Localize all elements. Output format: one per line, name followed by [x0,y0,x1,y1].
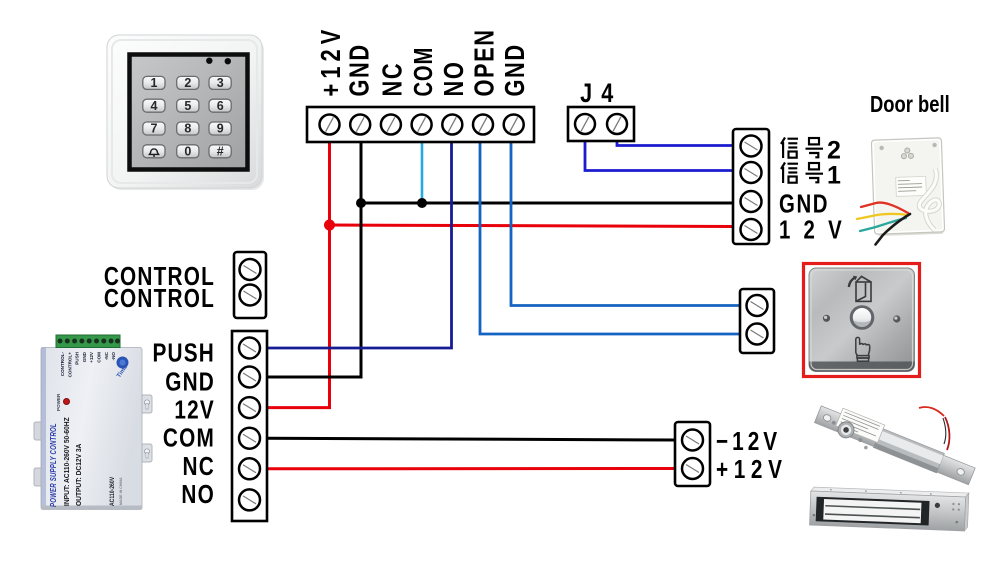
magnetic lock armature recess [816,497,930,526]
power supply green input terminal [56,335,120,348]
svg-text:CONTROL: CONTROL [104,284,215,313]
svg-text:CONTROL-: CONTROL- [60,352,65,377]
junction node red 12V bus [324,220,335,231]
keypad keys [143,76,231,158]
label COM (power supply) [163,423,215,452]
wire J4 pin1 blue to bell signal1 [585,141,733,171]
svg-text:-NC: -NC [104,351,109,360]
pin label +12V (controller) [315,25,346,97]
svg-text:+12V: +12V [315,25,346,97]
exit button hand icon [856,337,870,361]
magnetic lock screws and hole [935,503,940,508]
wire OPEN blue down and right to exit button terminal 2 [480,135,740,334]
pin label GND 2 (controller) [499,43,530,96]
door bell screws [879,146,884,151]
label -12V (lock block) [716,427,781,456]
svg-text:PUSH: PUSH [152,338,215,367]
svg-text:GND: GND [82,351,87,362]
wire black from junction down to power supply GND [258,203,361,377]
power supply mounting ears [142,395,152,413]
label CONTROL 1 [104,262,215,291]
svg-text:1: 1 [151,76,158,90]
door bell label sticker [896,176,927,196]
bolt lock label [836,408,885,442]
svg-text:NC: NC [183,452,215,481]
svg-text:COM: COM [97,352,102,363]
svg-text:5: 5 [184,99,191,113]
exit button red frame [804,264,920,377]
power supply pin labels [60,351,116,377]
J4 connector block [568,107,634,141]
door bell device [871,138,944,236]
svg-text:-NO: -NO [111,352,116,361]
door bell terminal block [733,129,769,244]
door bell colored wires [857,203,910,245]
svg-text:J 4: J 4 [580,79,615,109]
svg-text:NO: NO [181,480,215,509]
bolt lock wires [919,407,949,450]
wire COM light blue drop to GND bus [421,135,424,202]
label NO (power supply) [181,480,215,509]
door bell white cable [918,169,940,231]
svg-text:2: 2 [184,76,191,90]
pin label COM (controller) [409,47,438,97]
wire NO navy down and left to power supply PUSH [258,135,452,348]
power supply output terminal block (PUSH..NO) [232,331,267,521]
power supply power LED [64,399,70,405]
magnetic lock [810,487,969,531]
svg-text:GND: GND [165,367,215,396]
electric bolt lock [812,400,977,490]
power supply time knob [117,357,129,369]
keypad access controller [107,35,264,190]
wire black COM row to -12V terminal [267,438,675,440]
lock power terminal block (-12V / +12V) [675,422,710,486]
svg-text:7: 7 [151,122,158,136]
controller terminal strip [307,107,534,142]
svg-text:+12V: +12V [89,351,94,363]
junction node black GND bus at COM drop [417,198,427,208]
CONTROL terminal block [234,252,266,318]
door bell keyhole mount [901,148,913,159]
label Door bell [870,92,950,117]
label CONTROL 2 [104,284,215,313]
svg-text:PUSH: PUSH [75,351,80,364]
wire GND black vertical from controller to junction [360,135,363,203]
svg-text:NC: NC [377,62,408,97]
exit button terminal block [740,289,774,353]
label GND (power supply) [165,367,215,396]
svg-text:3: 3 [217,76,224,90]
svg-text:6: 6 [217,99,224,113]
label J 4 [580,79,615,109]
wire red from junction down to power supply 12V [258,225,330,408]
label PUSH [152,338,215,367]
label +12V (lock block) [716,455,788,484]
label 12V (power supply) [174,395,215,424]
svg-text:+12V: +12V [716,455,788,484]
svg-text:9: 9 [217,122,224,136]
svg-text:1: 1 [827,162,841,190]
bolt lock body cylinder [873,428,944,473]
svg-text:12V: 12V [174,395,215,424]
wire J4 pin2 blue to bell signal2 [617,141,733,146]
pin label GND (controller) [344,43,375,96]
keypad bell key icon [149,149,158,156]
power supply side texts [48,423,58,507]
wire +12V red vertical from controller to junction [328,135,331,225]
svg-text:8: 8 [184,122,191,136]
svg-text:POWER: POWER [56,393,61,411]
bolt lock cylinder face [836,419,857,440]
svg-text:MADE IN CHINA: MADE IN CHINA [119,477,123,505]
svg-text:COM: COM [163,423,215,452]
wire black bus from junction to bell GND terminal [361,202,733,205]
svg-text:AC110-260V: AC110-260V [110,477,116,506]
exit button [804,264,920,377]
svg-text:4: 4 [151,99,158,113]
exit button screws [823,315,830,322]
svg-text:Door bell: Door bell [870,92,950,117]
svg-text:12V: 12V [779,215,855,244]
svg-text:GND: GND [499,43,530,96]
svg-text:COM: COM [409,47,438,97]
label GND (bell block) [779,189,829,218]
svg-text:#: # [217,144,224,158]
exit button push button [850,305,875,330]
pin label NC (controller) [377,62,408,97]
exit button steel plate [809,268,915,372]
wire GND blue down and right to exit button terminal 1 [511,135,740,306]
junction node black GND bus at GND drop [356,198,366,208]
svg-text:NO: NO [438,61,469,97]
label NC (power supply) [183,452,215,481]
svg-text:OUTPUT: DC12V 3A: OUTPUT: DC12V 3A [76,444,83,506]
svg-text:INPUT: AC110-260V 50-60HZ: INPUT: AC110-260V 50-60HZ [64,417,71,506]
label signal1 (bell block) [781,162,841,190]
svg-text:POWER SUPPLY CONTROL: POWER SUPPLY CONTROL [48,423,58,507]
pin label OPEN (controller) [469,28,500,96]
svg-text:CONTROL+: CONTROL+ [67,352,72,378]
svg-text:2: 2 [827,137,841,165]
svg-text:GND: GND [344,43,375,96]
wire red NC row to +12V terminal [267,467,675,470]
svg-text:OPEN: OPEN [469,28,500,96]
label 12V (bell block) [779,215,855,244]
exit button door icon [849,276,871,301]
svg-text:GND: GND [779,189,829,218]
label signal2 (bell block) [781,137,841,165]
pin label NO (controller) [438,61,469,97]
keypad status LEDs [206,58,212,64]
power supply unit [34,335,152,510]
svg-text:−12V: −12V [716,427,781,456]
wire red bus from junction to bell 12V terminal [330,225,734,227]
svg-text:0: 0 [184,144,191,158]
